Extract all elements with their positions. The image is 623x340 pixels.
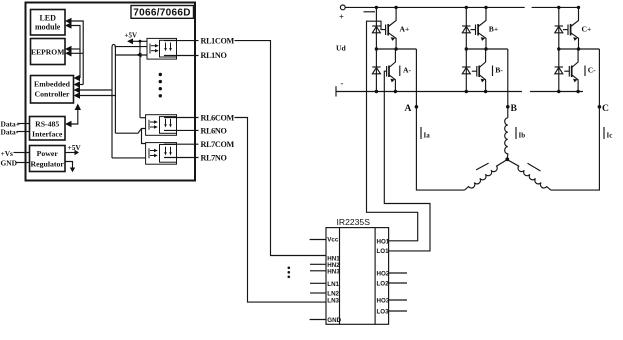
dots relay column ellipsis bbox=[159, 73, 162, 98]
wire EEPROM bus line 1 bbox=[70, 48, 80, 50]
pin HN3 bbox=[310, 270, 326, 272]
svg-text:Ud: Ud bbox=[336, 43, 346, 52]
wire controller arrow 2 bbox=[79, 84, 84, 86]
label box 7066/7066D bbox=[131, 6, 194, 19]
wire Data+ to RS-485 bbox=[18, 123, 30, 125]
wire RL1COM output bbox=[164, 40, 199, 42]
junction dots leg B bbox=[465, 6, 488, 94]
motor winding phase B coil bbox=[505, 118, 508, 160]
wire RL1NO output bbox=[164, 55, 199, 57]
DC bus bottom rail bbox=[336, 91, 522, 93]
pin HO3 bbox=[389, 299, 407, 301]
transistor B- IGBT bbox=[472, 49, 486, 92]
wire EEPROM bus line 2 bbox=[70, 52, 83, 54]
junction dots leg C bbox=[557, 6, 580, 94]
svg-text:+Vs: +Vs bbox=[1, 149, 14, 158]
label C- with bar bbox=[584, 66, 586, 77]
current arrow Ia bbox=[420, 127, 422, 139]
motor winding phase C coil bbox=[508, 160, 551, 190]
wire +5V vertical feed to relays bbox=[137, 41, 140, 55]
wire relay1 LED feed from bus bbox=[115, 46, 148, 48]
svg-text:Vcc: Vcc bbox=[327, 237, 339, 244]
svg-text:LO3: LO3 bbox=[377, 309, 390, 316]
pin Vcc bbox=[310, 239, 326, 241]
wire LED module bus line 2 bbox=[70, 26, 80, 79]
wire relay1 control line bbox=[115, 54, 147, 56]
junction dot +5V feed bbox=[139, 40, 142, 43]
svg-text:Controller: Controller bbox=[35, 90, 70, 99]
dash mark below top rail bbox=[364, 11, 376, 13]
wire relay6-relay7 vertical bbox=[142, 129, 146, 144]
wire RL6NO output bbox=[164, 129, 199, 131]
diode D3 (B upper) bbox=[462, 7, 470, 49]
svg-text:RL7COM: RL7COM bbox=[201, 140, 235, 149]
diode D1 (A upper) bbox=[372, 7, 380, 49]
svg-text:GND: GND bbox=[327, 317, 341, 324]
wire phase B down bbox=[507, 49, 509, 118]
svg-text:Regulator: Regulator bbox=[31, 160, 65, 169]
wire controller arrow 3 to relay bus bbox=[79, 89, 113, 91]
label B- with bar bbox=[492, 66, 494, 77]
svg-text:+: + bbox=[339, 12, 344, 22]
wire controller arrow 1 bbox=[79, 77, 81, 79]
block Embedded Controller bbox=[31, 76, 74, 104]
leg A mid bar (phase node A) bbox=[376, 48, 416, 50]
svg-text:RL1COM: RL1COM bbox=[201, 37, 235, 46]
transistor C+ IGBT bbox=[563, 7, 579, 49]
wire HO1 to A+ gate bbox=[367, 21, 418, 241]
leg C mid bar (phase node C) bbox=[559, 48, 600, 50]
svg-text:RL7NO: RL7NO bbox=[201, 153, 227, 162]
relay/opto K6 bbox=[146, 115, 177, 136]
pin LO2 bbox=[389, 282, 407, 284]
svg-text:Ib: Ib bbox=[519, 132, 526, 140]
wire RL6COM to LN3 bbox=[235, 118, 327, 303]
wire RL7NO output bbox=[164, 157, 199, 159]
current arrow Ic bbox=[603, 127, 605, 139]
svg-text:+5V: +5V bbox=[125, 31, 138, 39]
svg-text:module: module bbox=[35, 23, 61, 32]
IC IR2235S body bbox=[326, 228, 389, 325]
svg-text:Ia: Ia bbox=[424, 132, 431, 140]
dots input ellipsis bbox=[288, 267, 291, 279]
svg-text:B+: B+ bbox=[489, 25, 498, 34]
svg-text:RL1NO: RL1NO bbox=[201, 51, 227, 60]
wire RL7COM output bbox=[164, 143, 199, 145]
node B label and dot bbox=[506, 105, 510, 109]
module outer box 7066 bbox=[26, 3, 196, 181]
block EEPROM bbox=[31, 39, 66, 65]
svg-text:C-: C- bbox=[588, 66, 596, 75]
svg-text:HN3: HN3 bbox=[327, 269, 340, 276]
wire Data- to RS-485 bbox=[17, 131, 30, 133]
motor winding phase A coil bbox=[465, 160, 507, 190]
transistor A- IGBT bbox=[387, 49, 396, 92]
block RS-485 Interface bbox=[30, 117, 66, 141]
svg-text:C+: C+ bbox=[582, 25, 592, 34]
winding arrow left bbox=[476, 163, 489, 170]
transistor B+ IGBT bbox=[471, 7, 487, 49]
pin LO3 bbox=[389, 310, 407, 312]
svg-text:B: B bbox=[511, 103, 518, 114]
svg-text:HO1: HO1 bbox=[377, 238, 390, 245]
pin GND bbox=[310, 319, 326, 321]
svg-text:IR2235S: IR2235S bbox=[337, 217, 371, 227]
wire phase C down bbox=[551, 49, 600, 190]
svg-text:LN3: LN3 bbox=[327, 297, 339, 304]
svg-text:Embedded: Embedded bbox=[34, 80, 71, 89]
wire relay7 control line bbox=[112, 157, 146, 159]
wire +Vs to Power Regulator bbox=[14, 152, 30, 154]
diode D2 (A lower) bbox=[372, 49, 380, 92]
relay/opto K1 bbox=[147, 38, 177, 59]
svg-text:Interface: Interface bbox=[32, 130, 63, 139]
svg-text:RS-485: RS-485 bbox=[35, 120, 59, 129]
current arrow Ib bbox=[515, 127, 517, 139]
leg B mid bar (phase node B) bbox=[466, 48, 508, 50]
svg-text:RL6COM: RL6COM bbox=[201, 114, 235, 123]
svg-text:LO2: LO2 bbox=[377, 281, 390, 288]
svg-text:LN1: LN1 bbox=[327, 281, 339, 288]
svg-text:+5V: +5V bbox=[68, 143, 82, 152]
wire controller arrow 4 to relay bus bbox=[79, 95, 116, 97]
pin LN1 bbox=[310, 282, 326, 284]
DC bus top rail bbox=[345, 6, 525, 8]
svg-text:Ic: Ic bbox=[607, 132, 613, 140]
svg-text:A: A bbox=[405, 103, 412, 114]
transistor A+ IGBT bbox=[386, 7, 397, 49]
wire +5V arrow into relay 1 bbox=[131, 40, 147, 42]
diode D4 (B lower) bbox=[462, 49, 470, 92]
wire relay control bus vertical pair bbox=[112, 44, 115, 158]
relay/opto K7 bbox=[146, 143, 177, 165]
svg-text:7066/7066D: 7066/7066D bbox=[133, 8, 191, 19]
wire regulator ground output arrow bbox=[65, 162, 73, 169]
svg-text:-: - bbox=[341, 78, 344, 88]
svg-text:HO2: HO2 bbox=[377, 271, 390, 278]
junction dots leg A bbox=[375, 6, 398, 94]
node C label and dot bbox=[598, 105, 602, 109]
svg-text:EEPROM: EEPROM bbox=[31, 48, 64, 57]
svg-text:LED: LED bbox=[39, 14, 56, 23]
transistor C- IGBT bbox=[564, 49, 578, 92]
motor star point bbox=[505, 157, 509, 161]
svg-text:GND: GND bbox=[1, 159, 17, 168]
wire phase A down bbox=[416, 49, 464, 190]
pin LN2 bbox=[310, 292, 326, 294]
block LED module bbox=[31, 10, 66, 36]
svg-text:Power: Power bbox=[37, 149, 59, 158]
wire LO1 to A- gate bbox=[384, 71, 430, 251]
svg-text:A-: A- bbox=[403, 66, 411, 75]
winding arrow right bbox=[528, 163, 541, 171]
pin HN2 bbox=[310, 263, 326, 265]
wire +5V regulator output arrow bbox=[65, 152, 75, 154]
svg-text:A+: A+ bbox=[400, 25, 410, 34]
wire RL6COM output bbox=[164, 117, 199, 119]
block Power Regulator bbox=[30, 146, 66, 172]
svg-text:RL6NO: RL6NO bbox=[201, 126, 227, 135]
svg-text:Data-: Data- bbox=[1, 128, 19, 137]
svg-text:B-: B- bbox=[495, 66, 503, 75]
wire relay6 supply elbow bbox=[140, 117, 146, 119]
wire LED module bus line 1 bbox=[70, 21, 83, 85]
diode D5 (C upper) bbox=[555, 7, 563, 49]
DC bus + terminal bbox=[340, 5, 345, 10]
label A- with bar bbox=[399, 66, 401, 77]
svg-text:C: C bbox=[602, 103, 609, 114]
wire controller to RS-485 link bbox=[70, 107, 78, 125]
wire relay6 control line bbox=[115, 129, 145, 134]
wire RL1COM to HN1 bbox=[235, 41, 327, 256]
svg-text:HO3: HO3 bbox=[377, 298, 390, 305]
wire GND to Power Regulator bbox=[17, 162, 30, 164]
svg-text:LO1: LO1 bbox=[377, 248, 390, 255]
diode D6 (C lower) bbox=[555, 49, 563, 92]
pin HO2 bbox=[389, 272, 407, 274]
